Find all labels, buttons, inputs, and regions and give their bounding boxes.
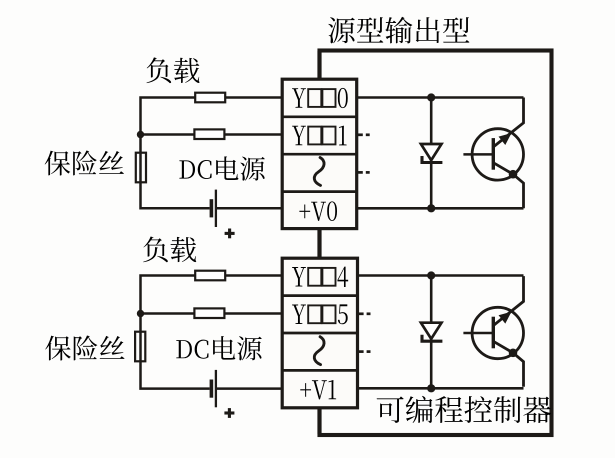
ellipsis squiggle in TB1	[314, 158, 324, 186]
PLC enclosure box (programmable controller outline)	[320, 51, 552, 436]
wire: left rail + Y**0 loop (upper circuit)	[141, 98, 284, 209]
bus stub: enclosure top to terminal block TB1	[317, 51, 321, 80]
continuation dots right of Y**5	[358, 312, 364, 315]
bus stub: terminal block TB1 to TB2	[317, 228, 321, 259]
wire: D1 branch vertical (upper)	[430, 98, 433, 209]
bus stub: terminal block TB2 to enclosure bottom	[317, 407, 321, 434]
terminal label Y**5	[292, 304, 348, 324]
continuation dots right of TB2 squiggle	[358, 350, 364, 353]
wire: Y**4 terminal to D2 anode / Q2 emitter (top, lower)	[358, 274, 524, 277]
fuse F2 (lower circuit)	[135, 332, 145, 362]
polarity label + of B2	[224, 411, 234, 414]
wire: battery B1 positive to +V0 terminal	[216, 207, 283, 210]
label: DC电源 DC power supply (upper)	[179, 156, 264, 180]
terminal label Y**1	[292, 126, 347, 146]
junction: left rail / Y**1 branch (upper)	[137, 131, 144, 138]
label: 负载 load (upper)	[146, 57, 199, 83]
flyback diode D1 (upper)	[421, 144, 442, 160]
DC source B1 (upper circuit battery)	[210, 199, 214, 217]
wire: D2 branch vertical (lower)	[430, 276, 433, 389]
terminal label +V0	[299, 201, 337, 221]
wire: battery B2 positive to +V1 terminal	[216, 387, 283, 390]
flyback diode D2 (lower)	[421, 323, 442, 339]
wire: Y**0 terminal to D1 anode / Q1 emitter (top, upper)	[357, 96, 524, 99]
continuation dots right of TB1 squiggle	[357, 171, 363, 174]
terminal label Y**4	[292, 267, 348, 287]
wire: Y**1 branch (upper circuit)	[141, 133, 284, 136]
terminal block TB2 (Y**4/Y**5/~/+V1)	[282, 258, 357, 408]
DC source B2 (lower circuit battery)	[210, 380, 214, 398]
load resistor R2 (upper Y**1 branch)	[194, 129, 224, 139]
label: DC电源 DC power supply (lower)	[176, 336, 261, 360]
wire: +V0 terminal to D1 cathode / Q1 collector (bottom, upper)	[357, 207, 524, 210]
junction dot: D2 bottom node (lower)	[427, 384, 435, 392]
terminal block TB1 (Y**0/Y**1/~/+V0)	[282, 79, 357, 228]
load resistor R4 (lower Y**5 branch)	[194, 308, 224, 318]
wire: +V1 terminal to D2 cathode / Q2 collector (bottom, lower)	[358, 387, 524, 390]
label: 可编程控制器 programmable controller	[377, 396, 551, 423]
junction: left rail / Y**5 branch (lower)	[137, 310, 144, 317]
terminal label +V1	[300, 380, 336, 399]
junction dot: D1 bottom node (upper)	[427, 204, 435, 212]
junction dot: D1 top node (upper)	[427, 93, 435, 101]
load resistor R1 (upper Y**0 branch)	[195, 93, 225, 103]
wire: left rail + Y**4 loop (lower circuit)	[141, 276, 284, 389]
junction dot: D2 top node (lower)	[427, 271, 435, 279]
fuse F1 (upper circuit)	[136, 153, 146, 183]
label: 负载 load (lower)	[143, 237, 196, 263]
terminal label Y**0	[292, 88, 348, 108]
ellipsis squiggle in TB2	[314, 337, 324, 365]
polarity label + of B1	[225, 232, 235, 235]
label: 保险丝 fuse (lower)	[45, 336, 124, 361]
label: 保险丝 fuse (upper)	[45, 151, 124, 176]
label: 源型输出型 (source-type output, title)	[328, 17, 469, 44]
transistor Q1 (PNP output, upper)	[463, 98, 523, 209]
load resistor R3 (lower Y**4 branch)	[195, 271, 225, 281]
transistor Q2 (PNP output, lower)	[463, 276, 523, 387]
wire: Y**5 branch (lower circuit)	[141, 312, 284, 315]
continuation dots right of Y**1	[357, 133, 363, 136]
